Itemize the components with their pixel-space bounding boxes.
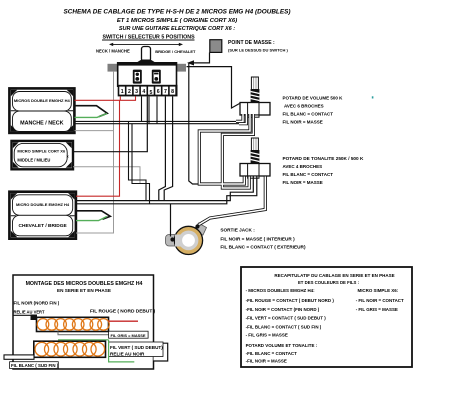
wire gray middle pickup masse xyxy=(73,167,140,184)
wire gray neck masse xyxy=(75,130,115,132)
svg-text:-FIL NOIR = CONTACT (FIN NORD: -FIL NOIR = CONTACT (FIN NORD ) xyxy=(246,307,320,312)
svg-text:MANCHE / NECK: MANCHE / NECK xyxy=(20,121,64,127)
body xyxy=(118,63,177,86)
speck xyxy=(372,96,374,98)
wire jack sleeve (left tab) xyxy=(170,204,172,237)
left mount tab xyxy=(108,64,118,72)
contact block A xyxy=(133,70,142,84)
svg-text:NECK / MANCHE: NECK / MANCHE xyxy=(96,49,130,54)
wire rouge from coil1 xyxy=(109,320,139,322)
svg-text:AVEC 6 BROCHES: AVEC 6 BROCHES xyxy=(284,104,324,109)
potentiometer tone 250K/500K xyxy=(240,138,270,178)
svg-text:-FIL VERT = CONTACT ( SUD DEBU: -FIL VERT = CONTACT ( SUD DEBUT ) xyxy=(246,316,327,321)
svg-text:POTARD DE VOLUME 500 K: POTARD DE VOLUME 500 K xyxy=(283,96,344,101)
wire gris masse xyxy=(58,332,110,335)
wire volume lug4 to tone xyxy=(222,114,253,188)
svg-text:POTARD DE TONALITE 250K / 500: POTARD DE TONALITE 250K / 500 K xyxy=(283,156,364,161)
svg-text:RELIE AU NOIR: RELIE AU NOIR xyxy=(110,351,145,356)
svg-text:FIL NOIR = MASSE: FIL NOIR = MASSE xyxy=(283,180,323,185)
svg-text:MONTAGE DES MICROS DOUBLES EMG: MONTAGE DES MICROS DOUBLES EMGHZ H4 xyxy=(26,281,143,287)
svg-text:-FIL ROUGE = CONTACT ( DEBUT N: -FIL ROUGE = CONTACT ( DEBUT NORD ) xyxy=(246,298,335,303)
pickup bridge (EMG H4 double) xyxy=(9,192,76,239)
svg-text:FIL NOIR = MASSE: FIL NOIR = MASSE xyxy=(283,119,323,124)
coil north (bobbin 1) xyxy=(37,317,110,331)
wire vert (top + down + bottom) xyxy=(58,339,109,341)
wire bridge black pair to tone lugs xyxy=(76,177,257,204)
pin strip pins 1-8 xyxy=(118,85,178,97)
wire middle pickup black to pin5 xyxy=(73,96,147,151)
svg-text:2: 2 xyxy=(128,89,131,95)
svg-text:5: 5 xyxy=(150,90,153,96)
wire switch ground to tone pot casing xyxy=(189,63,200,184)
montage box xyxy=(13,275,154,369)
svg-text:CHEVALET / BRIDGE: CHEVALET / BRIDGE xyxy=(19,223,68,229)
wire bridge red riser xyxy=(76,100,120,196)
wire noir into coil1 xyxy=(14,315,34,317)
cable arrow neck xyxy=(75,106,108,117)
svg-text:SCHEMA DE CABLAGE DE TYPE H-S: SCHEMA DE CABLAGE DE TYPE H-S-H DE 2 MIC… xyxy=(63,8,290,15)
potentiometer volume 500K xyxy=(240,77,270,117)
svg-text:FIL BLANC = CONTACT ( EXTERIEU: FIL BLANC = CONTACT ( EXTERIEUR) xyxy=(220,245,306,250)
pickup neck (EMG H4 double) xyxy=(9,88,74,132)
svg-text:SUR UNE GUITARE ELECTRIQUE COR: SUR UNE GUITARE ELECTRIQUE CORT X6 : xyxy=(119,26,235,32)
svg-text:MICRO SIMPLE CORT X6: MICRO SIMPLE CORT X6 xyxy=(17,149,66,154)
recap box xyxy=(241,267,412,367)
cable arrow bridge xyxy=(76,211,110,220)
svg-text:FIL NOIR (NORD FIN ): FIL NOIR (NORD FIN ) xyxy=(14,300,60,305)
wire blanc from coil2 (hollow) xyxy=(4,355,34,359)
svg-text:- FIL GRIS = MASSE: - FIL GRIS = MASSE xyxy=(246,332,288,337)
svg-text:- FIL GRIS = MASSE: - FIL GRIS = MASSE xyxy=(356,307,398,312)
svg-text:EN SERIE ET EN PHASE: EN SERIE ET EN PHASE xyxy=(57,288,111,293)
wire switch pin drops xyxy=(142,96,158,123)
svg-text:FIL NOIR = MASSE ( INTERIEUR ): FIL NOIR = MASSE ( INTERIEUR ) xyxy=(220,236,295,241)
wire neck red to switch pin3 xyxy=(75,96,136,196)
ground point (point de masse) xyxy=(210,40,222,53)
svg-text:ET DES COULEURS DE FILS :: ET DES COULEURS DE FILS : xyxy=(298,280,360,285)
svg-text:ET 1 MICROS SIMPLE ( ORIGINE C: ET 1 MICROS SIMPLE ( ORIGINE CORT X6) xyxy=(117,18,237,24)
wire switch pins7/8 down to ground junction xyxy=(159,96,173,200)
svg-text:POTARD VOLUME ET TONALITE :: POTARD VOLUME ET TONALITE : xyxy=(246,343,318,348)
svg-text:MICROS DOUBLE EMGHZ H4: MICROS DOUBLE EMGHZ H4 xyxy=(14,98,71,103)
svg-text:8: 8 xyxy=(171,89,174,95)
lever xyxy=(142,47,151,62)
svg-text:SORTIE JACK :: SORTIE JACK : xyxy=(220,228,255,233)
svg-text:7: 7 xyxy=(164,89,167,95)
svg-text:FIL ROUGE ( NORD DEBUT ): FIL ROUGE ( NORD DEBUT ) xyxy=(90,309,156,315)
svg-text:FIL BLANC = CONTACT: FIL BLANC = CONTACT xyxy=(283,172,334,177)
svg-text:-FIL NOIR = MASSE: -FIL NOIR = MASSE xyxy=(246,359,287,364)
switch label xyxy=(96,35,196,54)
svg-text:AVEC 4 BROCHES: AVEC 4 BROCHES xyxy=(283,164,323,169)
svg-text:MICRO SIMPLE X6:: MICRO SIMPLE X6: xyxy=(358,288,399,293)
svg-text:- MICROS DOUBLES EMGHZ H4:: - MICROS DOUBLES EMGHZ H4: xyxy=(246,288,316,293)
pickup middle (single Cort X6) xyxy=(12,141,74,169)
svg-text:3: 3 xyxy=(135,89,138,95)
svg-text:RECAPITULATIF DU CABLAGE EN SE: RECAPITULATIF DU CABLAGE EN SERIE ET EN … xyxy=(274,273,394,278)
wire volume lug3 to tone (hollow) xyxy=(199,114,253,188)
svg-text:BRIDGE / CHEVALET: BRIDGE / CHEVALET xyxy=(155,49,196,54)
wire vert descend xyxy=(109,340,135,362)
label fil vert sud debut xyxy=(109,342,164,357)
svg-text:-FIL BLANC = CONTACT: -FIL BLANC = CONTACT xyxy=(246,351,298,356)
svg-text:POINT DE MASSE :: POINT DE MASSE : xyxy=(228,40,275,46)
wire neck green xyxy=(75,114,108,118)
title xyxy=(63,8,290,32)
wire bridge green xyxy=(76,217,107,221)
svg-text:MICRO DOUBLE EMGHZ H4: MICRO DOUBLE EMGHZ H4 xyxy=(16,202,70,207)
label fil blanc sud fin xyxy=(10,362,59,369)
label fil noir nord fin xyxy=(14,300,60,314)
montage box right notch xyxy=(154,343,168,361)
label fil gris = masse xyxy=(109,331,149,338)
svg-text:FIL BLANC = CONTACT: FIL BLANC = CONTACT xyxy=(283,112,334,117)
jack output xyxy=(166,223,207,254)
svg-text:1: 1 xyxy=(121,89,124,95)
svg-text:-FIL BLANC = CONTACT ( SUD FIN: -FIL BLANC = CONTACT ( SUD FIN ) xyxy=(246,324,322,329)
wire ground point to switch tab (arrow) xyxy=(194,53,210,63)
switch SW1 xyxy=(108,47,187,97)
svg-text:(SUR LE DESSUS DU SWITCH ): (SUR LE DESSUS DU SWITCH ) xyxy=(228,48,288,53)
right mount tab xyxy=(177,64,187,72)
wire black bus: neck/pins to volume lugs xyxy=(75,121,240,123)
svg-text:FIL BLANC ( SUD FIN ): FIL BLANC ( SUD FIN ) xyxy=(11,363,59,368)
wire switch tab to volume pot casing xyxy=(187,67,240,108)
svg-text:FIL VERT ( SUD DEBUT): FIL VERT ( SUD DEBUT) xyxy=(110,345,163,350)
svg-text:FIL GRIS = MASSE: FIL GRIS = MASSE xyxy=(111,333,146,338)
svg-text:6: 6 xyxy=(157,89,160,95)
wire jack tip to tone (hollow) xyxy=(199,177,265,225)
svg-text:- FIL NOIR = CONTACT: - FIL NOIR = CONTACT xyxy=(356,298,404,303)
wire staircase bus to bridge bundle xyxy=(129,121,150,203)
direction arrow xyxy=(111,43,181,45)
svg-text:4: 4 xyxy=(142,89,145,95)
wire gray ground bus from switch left tab down xyxy=(73,72,140,233)
svg-text:MIDDLE / MILIEU: MIDDLE / MILIEU xyxy=(17,158,50,163)
svg-text:RELIE AU VERT: RELIE AU VERT xyxy=(14,310,46,315)
contact block B xyxy=(152,70,161,84)
coil south (bobbin 2) xyxy=(34,341,106,357)
